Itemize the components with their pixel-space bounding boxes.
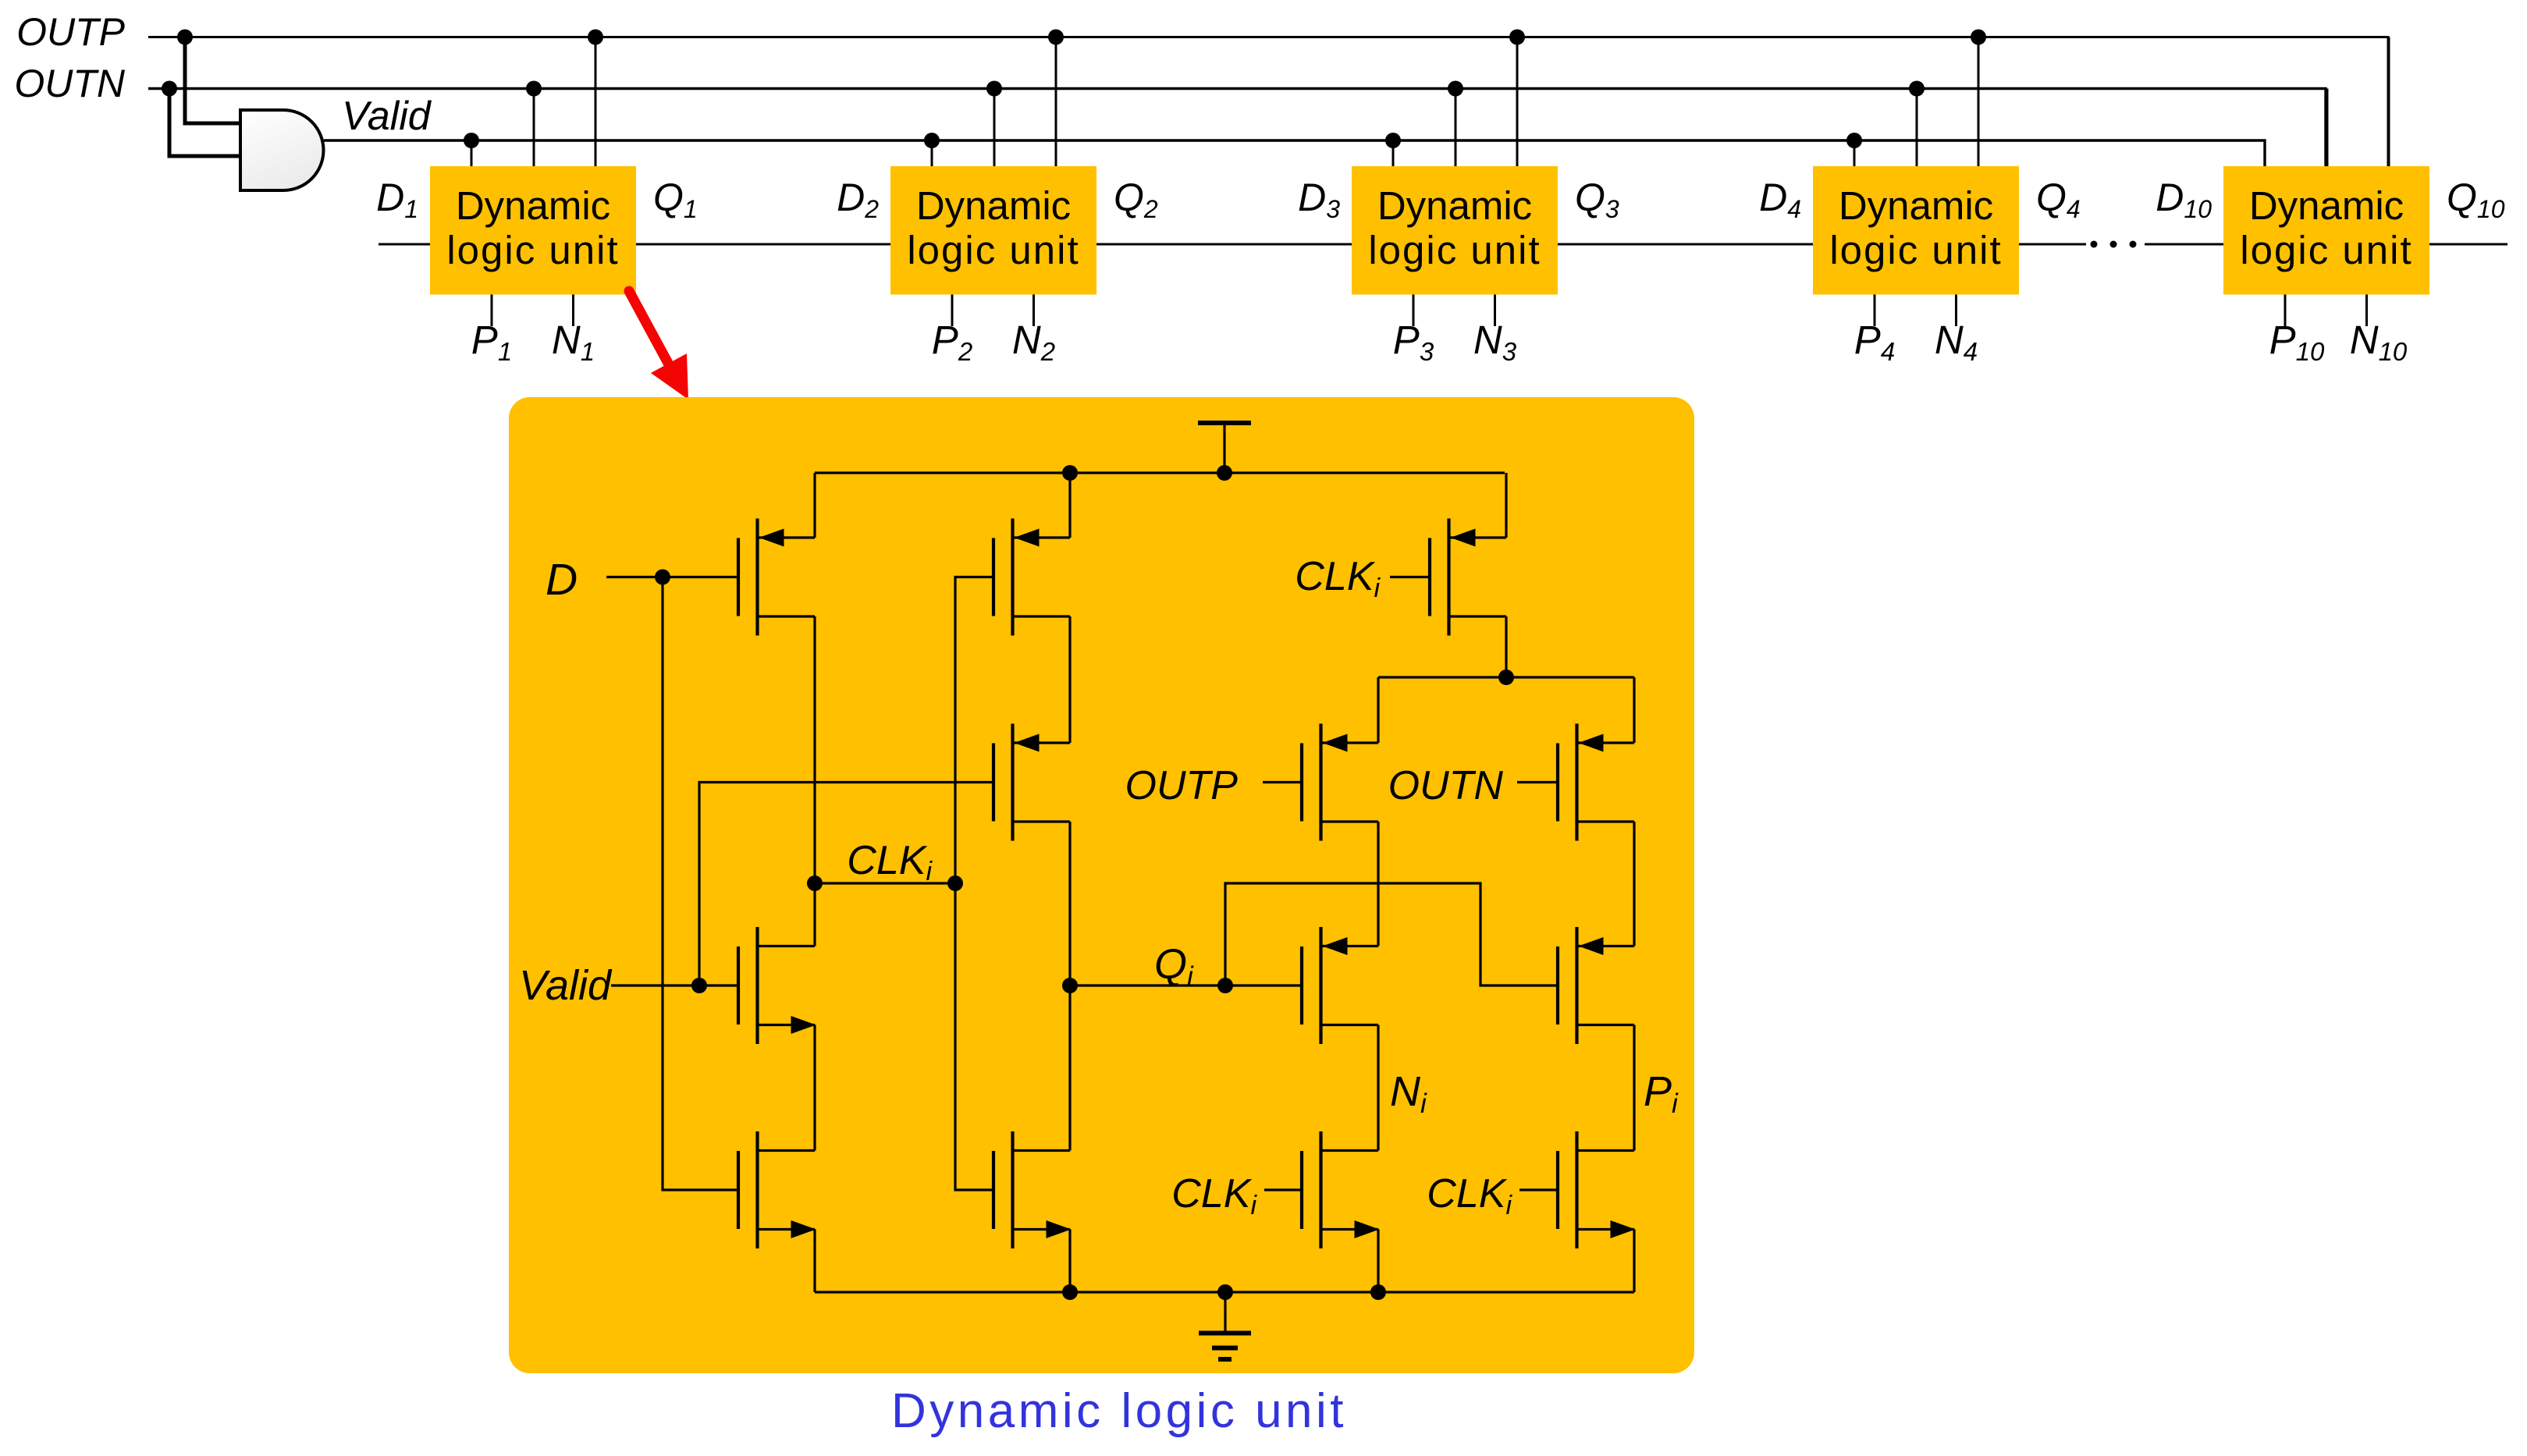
wire col3b M8 drain to node: [1505, 616, 1507, 677]
junction dot OUTP-AND tap: [177, 30, 193, 45]
wire OUTN gate lead: [1517, 781, 1558, 783]
junction dot OUTP stub 1: [588, 30, 603, 45]
wire OUTP gate lead: [1263, 781, 1302, 783]
svg-text:P2: P2: [932, 318, 972, 366]
VDD symbol: [1223, 423, 1225, 473]
svg-text:Q1: Q1: [653, 176, 698, 223]
svg-text:logic unit: logic unit: [1368, 228, 1541, 272]
junction dot OUTN stub 3: [1448, 81, 1463, 97]
wire P10 stub: [2284, 295, 2287, 327]
transistor M1 (PMOS, gate D): [738, 519, 815, 636]
VDD rail: [815, 471, 1505, 474]
wire Valid input: [611, 984, 738, 986]
svg-text:Dynamic: Dynamic: [1839, 183, 1993, 228]
block Dynamic logic unit 4: [1813, 166, 2019, 295]
junction dot CLKi col2 side: [947, 875, 963, 891]
wire CLKi to M8 gate: [1390, 576, 1430, 578]
svg-text:Dynamic: Dynamic: [456, 183, 610, 228]
red callout arrow: [629, 291, 670, 366]
transistor M3 (PMOS, cross-coupled): [993, 724, 1070, 841]
wire D to M6 gate: [663, 577, 738, 1191]
svg-text:Dynamic: Dynamic: [1377, 183, 1532, 228]
wire OUTP bus: [148, 37, 2388, 167]
svg-text:D: D: [546, 555, 578, 605]
svg-text:N2: N2: [1012, 318, 1055, 366]
svg-text:OUTN: OUTN: [14, 62, 126, 105]
wire cross-couple to M3 gate: [699, 783, 993, 986]
transistor M5 (NMOS, gate D): [738, 1131, 816, 1248]
wire D input: [606, 576, 738, 578]
wire CLKi to M14 gate: [1519, 1188, 1558, 1191]
junction dot Valid stub 4: [1846, 133, 1862, 148]
junction dot VDD stub: [1217, 465, 1232, 481]
svg-text:CLKi: CLKi: [1171, 1171, 1257, 1220]
junction dot CLKi tap col1: [807, 875, 823, 891]
wire CLKi to M11 gate: [1264, 1188, 1302, 1191]
wire OUTP stub to unit 1: [595, 37, 597, 167]
transistor M4 (NMOS, gate Valid): [738, 927, 816, 1044]
wire Valid stub to unit 4: [1853, 140, 1856, 166]
svg-text:Q4: Q4: [2036, 176, 2081, 223]
svg-text:logic unit: logic unit: [907, 228, 1079, 272]
wire N10 stub: [2365, 295, 2368, 327]
transistor M11 (NMOS, gate CLKi): [1302, 1131, 1380, 1248]
wire col1 VDD to M1 source: [813, 473, 816, 538]
wire col1 M1 drain to M4 drain chain: [813, 616, 816, 946]
svg-text:P3: P3: [1393, 318, 1434, 366]
wire N1 stub: [572, 295, 574, 327]
wire col4 M12 drain to M13 drain: [1633, 822, 1635, 946]
block Dynamic logic unit 10: [2223, 166, 2429, 295]
junction dot Valid stub 2: [924, 133, 940, 148]
svg-text:CLKi: CLKi: [1427, 1171, 1512, 1220]
junction dot OUTN stub 2: [986, 81, 1002, 97]
wire OUTN bus: [148, 89, 2326, 167]
wire col1 M6 source to ground: [813, 1230, 816, 1293]
svg-text:N10: N10: [2350, 318, 2408, 366]
block Dynamic logic unit 3: [1352, 166, 1558, 295]
junction dot OUTP stub 3: [1509, 30, 1525, 45]
svg-text:P10: P10: [2269, 318, 2325, 366]
wire OUTN stub to unit 1: [533, 89, 535, 167]
junction dot M8 drain node: [1498, 669, 1514, 685]
junction dot Valid stub 1: [464, 133, 479, 148]
wire col3b VDD to M8 source: [1505, 473, 1507, 538]
wire N3 stub: [1494, 295, 1496, 327]
wire N2 stub: [1032, 295, 1035, 327]
wire Q3 to D4: [1558, 243, 1813, 246]
wire Valid stub to unit 10: [2264, 140, 2266, 166]
junction dot Qi node: [1062, 978, 1078, 993]
svg-text:P1: P1: [471, 318, 512, 366]
wire col4 node to M12 source: [1633, 677, 1635, 743]
wire Q10 output: [2429, 243, 2507, 246]
ground rail: [815, 1291, 1634, 1293]
wire D1 input: [379, 243, 430, 246]
transistor M13 (gate Qi): [1558, 927, 1634, 1044]
junction dot OUTN stub 4: [1909, 81, 1925, 97]
svg-text:N3: N3: [1473, 318, 1517, 366]
wire Qi to M13 gate: [1225, 883, 1558, 985]
svg-text:D10: D10: [2156, 176, 2212, 223]
svg-text:Q2: Q2: [1114, 176, 1158, 223]
svg-text:N4: N4: [1935, 318, 1978, 366]
svg-text:P4: P4: [1854, 318, 1895, 366]
wire P4 stub: [1874, 295, 1876, 327]
wire node split horizontal: [1378, 676, 1634, 678]
svg-text:Dynamic logic unit: Dynamic logic unit: [891, 1384, 1347, 1438]
wire col3 M11 source to ground: [1377, 1230, 1379, 1293]
svg-text:OUTP: OUTP: [1125, 763, 1239, 808]
svg-text:logic unit: logic unit: [2240, 228, 2412, 272]
svg-text:D4: D4: [1759, 176, 1801, 223]
junction dot col2 ground: [1062, 1284, 1078, 1300]
junction dot OUTP stub 2: [1048, 30, 1064, 45]
svg-text:CLKi: CLKi: [847, 838, 933, 886]
wire Qi line to M10 gate: [1070, 984, 1302, 986]
wire Valid stub to unit 1: [471, 140, 473, 166]
svg-text:OUTP: OUTP: [16, 10, 126, 54]
svg-text:D3: D3: [1298, 176, 1340, 223]
wire OUTP to AND gate input: [185, 37, 240, 124]
wire col3 node to M9 source: [1377, 677, 1379, 743]
svg-text:N1: N1: [552, 318, 595, 366]
transistor M6 (NMOS, gate CLKi): [993, 1131, 1072, 1248]
svg-text:Valid: Valid: [519, 962, 613, 1009]
junction dot OUTN-AND tap: [162, 81, 177, 97]
junction dot VDD col2: [1062, 465, 1078, 481]
svg-text:Valid: Valid: [342, 94, 432, 139]
svg-text:Q10: Q10: [2447, 176, 2505, 223]
junction dot OUTP stub 4: [1971, 30, 1986, 45]
junction dot col3 ground: [1370, 1284, 1386, 1300]
junction dot D: [655, 570, 670, 585]
block Dynamic logic unit 2: [890, 166, 1096, 295]
transistor M2 (PMOS, gate CLKi): [993, 519, 1070, 636]
wire col1 M4 source to M6 drain: [813, 1025, 816, 1151]
wire CLKi net vertical to M2 and M7 gates: [955, 577, 993, 1191]
wire Q4 output segment: [2019, 243, 2086, 246]
wire P2 stub: [951, 295, 954, 327]
transistor M14 (NMOS, gate CLKi): [1558, 1131, 1636, 1248]
wire OUTN stub to unit 4: [1916, 89, 1918, 167]
svg-text:D1: D1: [376, 176, 418, 223]
svg-text:logic unit: logic unit: [446, 228, 619, 272]
wire col4 M14 source to ground: [1633, 1230, 1635, 1293]
wire Q1 to D2: [636, 243, 890, 246]
wire OUTP stub to unit 4: [1978, 37, 1980, 167]
wire P1 stub: [491, 295, 493, 327]
wire OUTN to AND gate input: [169, 89, 240, 157]
svg-text:D2: D2: [837, 176, 879, 223]
junction dot OUTN stub 1: [526, 81, 542, 97]
wire col4 M13 source to M14 drain (node Pi): [1633, 1025, 1635, 1151]
junction dot Valid stub 3: [1385, 133, 1401, 148]
wire col2 M3 drain to M7 drain (node Qi): [1068, 822, 1071, 1151]
wire col2 VDD to M2 source: [1068, 473, 1071, 538]
wire N4 stub: [1955, 295, 1957, 327]
junction dot ground stub: [1217, 1284, 1233, 1300]
svg-text:Dynamic: Dynamic: [916, 183, 1071, 228]
transistor M12 (PMOS, gate OUTN): [1558, 724, 1634, 841]
ground symbol: [1224, 1292, 1226, 1333]
svg-text:Dynamic: Dynamic: [2249, 183, 2404, 228]
wire OUTP stub to unit 3: [1516, 37, 1519, 167]
wire Valid net: [324, 140, 2265, 166]
ellipsis dots: [2091, 241, 2098, 248]
wire OUTP stub to unit 10: [2388, 37, 2390, 167]
svg-text:OUTN: OUTN: [1388, 763, 1504, 808]
wire col2 M2 drain to M3 source: [1068, 616, 1071, 743]
wire Q2 to D3: [1096, 243, 1352, 246]
svg-text:Q3: Q3: [1575, 176, 1619, 223]
wire P3 stub: [1413, 295, 1415, 327]
wire CLKi horizontal: [815, 882, 955, 884]
wire OUTN stub to unit 2: [993, 89, 996, 167]
wire Valid stub to unit 3: [1392, 140, 1395, 166]
wire col3 M9 drain to M10 drain: [1377, 822, 1379, 946]
block Dynamic logic unit 1: [430, 166, 636, 295]
transistor M8 (PMOS, gate CLKi): [1430, 519, 1506, 636]
transistor M9 (PMOS, gate OUTP): [1302, 724, 1378, 841]
transistor M10 (gate Qi): [1302, 927, 1378, 1044]
wire OUTN stub to unit 3: [1455, 89, 1457, 167]
wire D10 input segment: [2145, 243, 2223, 246]
wire Valid stub to unit 2: [931, 140, 933, 166]
big block Dynamic logic unit detail: [509, 397, 1694, 1373]
junction dot Qi branch: [1217, 978, 1233, 993]
svg-text:logic unit: logic unit: [1829, 228, 2002, 272]
junction dot Valid branch: [691, 978, 707, 993]
wire OUTP stub to unit 2: [1055, 37, 1057, 167]
svg-text:CLKi: CLKi: [1295, 554, 1381, 603]
wire col2 M7 source to ground: [1068, 1230, 1071, 1293]
wire col3 M10 source to M11 drain (node Ni): [1377, 1025, 1379, 1151]
wire OUTN stub to unit 10: [2326, 89, 2329, 167]
